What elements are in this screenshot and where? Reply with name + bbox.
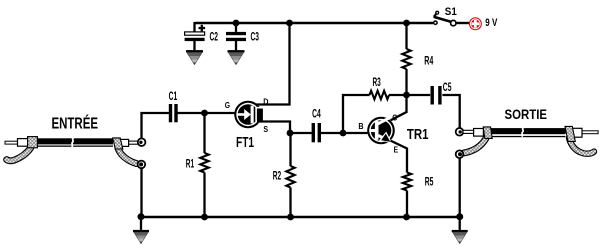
- wire drain to top rail: [256, 24, 290, 105]
- capacitor C5: [432, 86, 440, 105]
- input cable jacket: [37, 138, 114, 147]
- input cable braid patch right: [113, 138, 123, 149]
- svg-text:R2: R2: [273, 169, 282, 183]
- svg-text:G: G: [225, 100, 231, 110]
- input cable center pin: [128, 141, 139, 144]
- svg-text:SORTIE: SORTIE: [505, 106, 548, 122]
- node junction base / R3: [340, 130, 347, 137]
- node junction top rail at R4: [403, 20, 410, 27]
- svg-text:C4: C4: [312, 107, 321, 121]
- input cable dielectric right: [120, 139, 129, 146]
- input cable braid patch left: [28, 137, 38, 148]
- svg-text:ENTRÉE: ENTRÉE: [52, 115, 99, 132]
- output cable jacket: [490, 128, 566, 137]
- node junction rail R2: [287, 214, 294, 221]
- wire C5 to output terminal: [442, 95, 459, 128]
- wire R5 to ground rail: [406, 191, 408, 218]
- wire input shield terminal to rail: [140, 168, 142, 217]
- svg-text:C2: C2: [210, 29, 219, 43]
- svg-text:E: E: [394, 144, 399, 154]
- wire output shield terminal to rail: [459, 158, 461, 217]
- node junction rail output ground: [456, 213, 463, 220]
- wire node to C4: [290, 132, 312, 134]
- node junction rail input ground: [138, 213, 145, 220]
- wire C1 to gate of FT1: [177, 112, 235, 114]
- switch S1: [434, 11, 456, 25]
- output terminal ground: [456, 150, 464, 158]
- node junction top rail at C3: [233, 20, 240, 27]
- input cable braid tail left: [7, 148, 31, 161]
- wire R3 to collector node: [389, 94, 407, 96]
- output cable braid patch left: [483, 127, 492, 138]
- wire source to node: [257, 122, 290, 134]
- svg-text:9 V: 9 V: [485, 17, 497, 29]
- wire C4 to base node: [321, 132, 368, 134]
- wire collector to node: [391, 95, 407, 120]
- output cable center conductor stub: [582, 131, 599, 134]
- svg-text:C1: C1: [169, 89, 178, 103]
- capacitor C2 (electrolytic): [185, 22, 205, 50]
- svg-text:TR1: TR1: [407, 127, 429, 143]
- ground under C2: [186, 50, 203, 65]
- node junction R3 R4 C5 collector: [403, 92, 410, 99]
- transistor FT1 (JFET): [234, 101, 264, 129]
- svg-text:R3: R3: [373, 75, 382, 89]
- input cable dielectric left: [18, 139, 28, 147]
- wire from switch to battery: [456, 22, 471, 24]
- output cable braid tail left: [464, 137, 487, 153]
- battery positive terminal 9V: [469, 17, 482, 30]
- output cable braid tail right: [569, 138, 594, 154]
- input cable braid tail right: [118, 148, 137, 164]
- resistor R1: [200, 113, 208, 217]
- svg-text:C3: C3: [251, 29, 260, 43]
- input cable jacket break: [72, 138, 74, 147]
- ground bottom right: [452, 217, 468, 244]
- node junction rail R5: [403, 214, 410, 221]
- input terminal ground: [138, 161, 146, 169]
- wire base node up to R3: [343, 95, 370, 133]
- node junction top rail at FT1 drain column: [286, 20, 293, 27]
- resistor R5: [403, 173, 411, 191]
- output terminal signal: [456, 128, 464, 136]
- ground under C3: [228, 50, 245, 65]
- svg-text:R1: R1: [186, 156, 195, 170]
- label + polarity C2: [199, 25, 206, 32]
- output cable jacket break: [522, 127, 524, 136]
- transistor TR1 (NPN): [367, 117, 395, 145]
- capacitor C3: [226, 23, 246, 50]
- wire emitter to R5: [391, 141, 408, 173]
- output cable dielectric right: [573, 128, 582, 137]
- output cable dielectric left: [474, 129, 484, 137]
- capacitor C4: [313, 123, 319, 142]
- resistor R3: [370, 91, 390, 99]
- output cable braid patch right: [565, 126, 575, 141]
- svg-text:FT1: FT1: [236, 135, 254, 151]
- node junction source / R2 / C4: [287, 130, 294, 137]
- input terminal signal: [138, 138, 146, 146]
- resistor R2: [286, 133, 294, 217]
- wire node to C5: [407, 94, 431, 96]
- input cable center conductor stub: [5, 141, 19, 144]
- svg-text:C5: C5: [443, 80, 452, 94]
- wire top supply rail: [195, 22, 434, 24]
- svg-text:S: S: [263, 124, 268, 134]
- svg-text:S1: S1: [445, 6, 457, 18]
- output cable center pin: [463, 130, 475, 133]
- resistor R4: [402, 23, 410, 95]
- wire input node to C1 and gate: [142, 113, 170, 139]
- ground bottom left: [133, 217, 149, 244]
- svg-text:R4: R4: [424, 54, 433, 68]
- svg-text:B: B: [358, 121, 363, 131]
- wire bottom ground rail: [141, 216, 460, 218]
- node junction rail R1: [201, 214, 208, 221]
- node junction gate / R1: [201, 110, 208, 117]
- svg-text:R5: R5: [425, 175, 434, 189]
- capacitor C1: [171, 104, 177, 122]
